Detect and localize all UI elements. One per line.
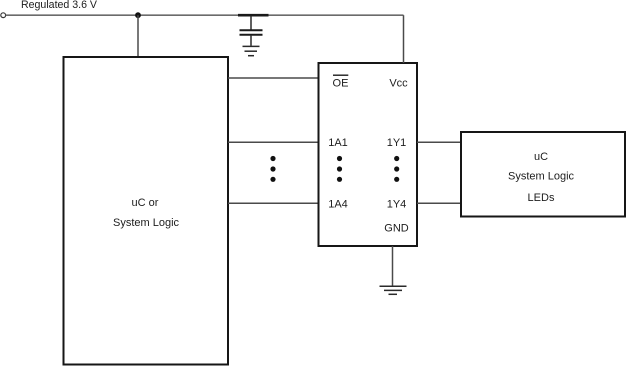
svg-text:System Logic: System Logic [508,170,575,182]
wire OE [228,77,318,79]
wire 1Y1 [417,141,461,143]
svg-text:uC or: uC or [132,197,159,209]
wire 1Y4 [417,202,461,204]
buffer U1 box [319,63,418,246]
svg-text:1A4: 1A4 [328,199,348,211]
svg-text:1Y4: 1Y4 [387,199,407,211]
node ellipsis 1Y column [394,156,399,182]
junction dot [135,12,141,18]
wire supply rail [6,14,404,16]
node ellipsis between boxes [270,156,275,182]
wire GND lead [392,246,394,286]
ground under U1 [380,286,407,294]
svg-text:LEDs: LEDs [528,192,555,204]
svg-text:1Y1: 1Y1 [387,137,407,149]
svg-text:System Logic: System Logic [113,217,180,229]
wire junction to left box [137,15,139,57]
capacitor C1 bypass [238,15,269,46]
wire 1A4 [228,202,318,204]
pin OE label [333,75,349,89]
svg-text:uC: uC [534,151,548,163]
svg-text:1A1: 1A1 [328,137,348,149]
svg-text:OE: OE [333,78,349,90]
uC or System Logic box [64,57,229,365]
ground for capacitor [243,46,260,55]
wire 1A1 [228,141,318,143]
terminal input [1,13,6,18]
svg-text:Vcc: Vcc [389,78,408,90]
node ellipsis 1A column [337,156,342,182]
uC System Logic LEDs box [461,132,625,217]
svg-text:GND: GND [384,223,409,235]
svg-text:Regulated 3.6 V: Regulated 3.6 V [21,0,98,11]
wire Vcc [403,15,405,63]
